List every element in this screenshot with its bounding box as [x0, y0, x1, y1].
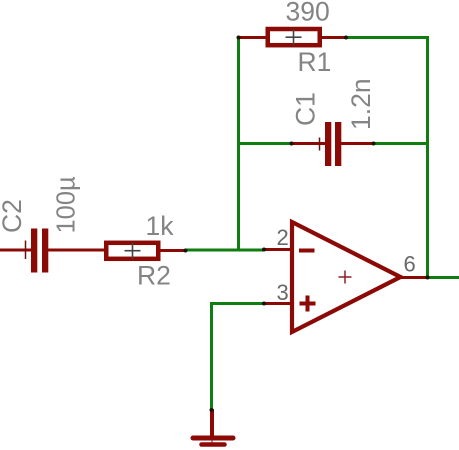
- origin cross: [339, 276, 352, 278]
- pin 2 lead: [264, 248, 292, 251]
- svg-text:390: 390: [286, 0, 330, 27]
- plus symbol: [300, 302, 316, 306]
- svg-text:100µ: 100µ: [53, 176, 81, 234]
- wire: output to right edge: [427, 276, 459, 279]
- pin 6 output lead: [399, 276, 428, 279]
- wire: pin 3 input horizontal: [212, 302, 265, 305]
- resistor R2: [106, 243, 186, 259]
- wire: pin 2 input net from R2: [185, 249, 264, 252]
- svg-text:6: 6: [404, 252, 416, 277]
- svg-text:3: 3: [277, 280, 289, 305]
- svg-text:1k: 1k: [146, 211, 175, 241]
- svg-text:R2: R2: [137, 261, 171, 291]
- ground: [193, 409, 233, 446]
- wire: C1 left branch: [237, 142, 292, 145]
- svg-text:C1: C1: [291, 92, 321, 126]
- wire: top horizontal from R1 right pin to top-right corner: [345, 36, 429, 39]
- wire: top-left vertical from R1 left node down to op-amp pin 2 net: [237, 37, 240, 250]
- capacitor C2: [0, 229, 105, 273]
- wire: right vertical from top-right corner down to op-amp output: [426, 36, 429, 278]
- wire: C1 right branch: [373, 142, 429, 145]
- svg-text:C2: C2: [0, 199, 27, 233]
- wire: pin 3 vertical down to ground: [210, 302, 213, 411]
- capacitor C1: [292, 122, 375, 166]
- resistor R1: [239, 29, 347, 45]
- op-amp U1: [264, 222, 428, 332]
- junction dots (pin endpoints): [237, 36, 241, 40]
- svg-text:R1: R1: [298, 47, 332, 77]
- pin 3 lead: [264, 302, 292, 305]
- svg-text:2: 2: [277, 225, 289, 250]
- svg-text:1.2n: 1.2n: [346, 78, 376, 130]
- minus symbol: [299, 249, 315, 253]
